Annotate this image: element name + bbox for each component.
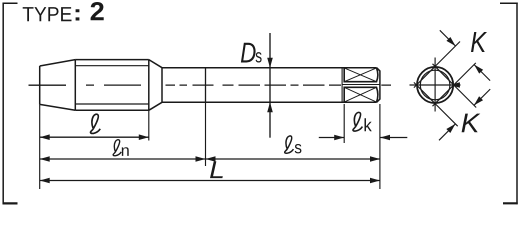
label text TYPE (23, 7, 72, 21)
dimension line L (overall) (40, 180, 380, 182)
dimension line lk (outside arrows) (319, 137, 408, 139)
tap tip face (39, 66, 41, 104)
label ls - s subscript (295, 144, 302, 153)
thread root top line (75, 65, 149, 67)
dimension line ln + ls (shared row) (40, 158, 380, 160)
label Ds - D (241, 43, 256, 63)
neck taper bottom (149, 102, 162, 110)
square middle thin line (343, 84, 380, 86)
neck taper top (149, 60, 162, 68)
extension line at tip face (x=39.7) (39, 104, 41, 189)
thread start vertical line (74, 60, 76, 111)
extension line at square start (x=344.2) (343, 104, 345, 143)
label text 2 (91, 2, 104, 20)
thread root bottom line (75, 103, 149, 105)
label K bottom (462, 114, 481, 133)
thread crest bottom line (75, 109, 149, 111)
dimension line l (thread length) (40, 136, 149, 138)
tip chamfer bottom (40, 104, 76, 110)
tip chamfer top (40, 60, 76, 66)
dimension Ds: vertical line with inward arrows (269, 33, 271, 138)
label script l of ln (113, 140, 121, 156)
end view inner circle (420, 70, 450, 100)
dimension K no.2 arrows (axis SW-NE below E corner) (439, 89, 490, 140)
neck boundary line on shank (205, 68, 207, 103)
label lk - k subscript (365, 118, 372, 131)
label ln - n subscript (122, 147, 129, 156)
extension line below neck boundary (x=205.5) (205, 102, 207, 166)
square end block left edge (341, 68, 343, 103)
label L (210, 161, 223, 178)
label script l of lk (353, 112, 362, 131)
end view horizontal centerline with small arrow at inner circle (410, 84, 461, 86)
label Ds - s subscript (256, 52, 262, 62)
end view outer circle (shank diameter) (417, 67, 453, 103)
square top band box (344, 68, 378, 82)
label K top (471, 32, 487, 52)
square bottom band X diagonals (344, 87, 376, 102)
shank top line (162, 67, 377, 69)
extension line at tap end (x=380) (379, 104, 381, 189)
shank start vertical line (161, 68, 163, 103)
square top band X diagonals (344, 68, 376, 82)
square corner overshoot ticks at N, W, S corners (414, 64, 435, 106)
thread crest top line (75, 59, 149, 61)
square edge extension top-left beyond N corner (435, 42, 460, 67)
square edge extension top-right beyond E corner (454, 85, 477, 108)
label script l of ls (285, 136, 294, 153)
end view vertical centerline (434, 58, 436, 112)
extension line at thread end (x=148.8) (148, 110, 150, 140)
centerline (tap axis, chain line) (29, 84, 392, 86)
square end chamfer top-right (377, 68, 380, 103)
label text colon (76, 9, 80, 20)
shank bottom line (162, 101, 377, 103)
square edge extension bottom-left beyond S corner (435, 104, 458, 127)
label script l (thread length) (91, 114, 101, 133)
end view square (rotated 45deg) (417, 66, 454, 103)
square bottom band box (344, 87, 378, 102)
thread end vertical line (148, 60, 150, 111)
dimension K no.1 arrows (axis NW-SE above E corner) (440, 30, 490, 80)
square edge extension bottom-right beyond E corner (454, 63, 476, 85)
